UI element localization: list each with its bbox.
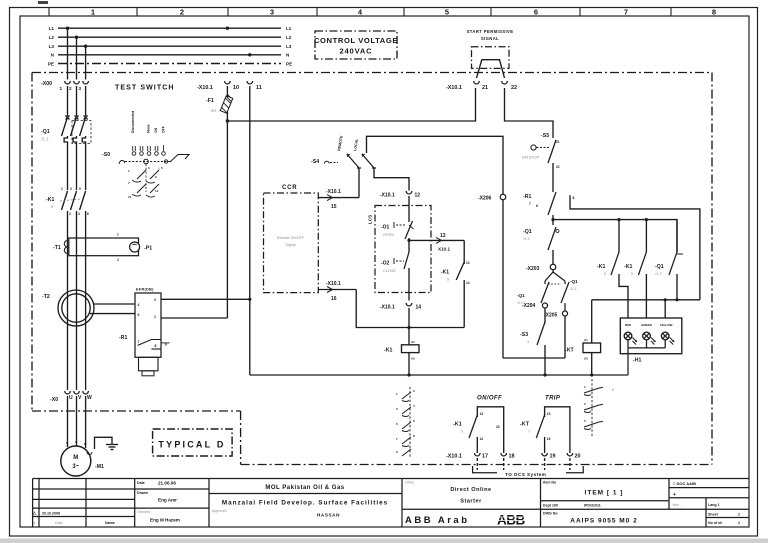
svg-text:3: 3	[270, 8, 274, 17]
svg-text:2: 2	[180, 8, 184, 17]
svg-text:TO DCS System: TO DCS System	[505, 472, 546, 477]
aux contact stack KT (right)	[584, 379, 614, 436]
svg-text:-K1: -K1	[46, 197, 54, 203]
selector S4	[311, 135, 376, 168]
svg-text:A2: A2	[411, 357, 415, 361]
bus PE	[58, 63, 281, 65]
svg-text:12: 12	[415, 193, 421, 199]
svg-text:CONTROL VOLTAGE: CONTROL VOLTAGE	[314, 36, 398, 45]
control voltage box	[314, 31, 398, 59]
svg-text:Approved: Approved	[212, 509, 227, 513]
wire 12 into LCS	[408, 196, 410, 222]
svg-text:OFF: OFF	[162, 126, 166, 133]
svg-text:Manzalai Field Develop. Surfac: Manzalai Field Develop. Surface Faciliti…	[222, 500, 388, 507]
svg-text:13: 13	[466, 261, 470, 265]
svg-text:-K1: -K1	[384, 348, 392, 354]
frame column numbers	[91, 8, 716, 17]
neutral rail	[250, 374, 628, 376]
contactor K1	[46, 187, 89, 216]
svg-text:7: 7	[529, 202, 531, 206]
svg-text:L2: L2	[49, 35, 55, 40]
svg-text:Move: Move	[147, 124, 151, 133]
svg-text:L1: L1	[286, 26, 292, 31]
wire L3 tap	[85, 46, 87, 79]
svg-text:8: 8	[712, 8, 716, 17]
wire rail to KT coil	[591, 300, 593, 343]
power column wires	[68, 28, 86, 448]
contact K1 holding	[441, 240, 470, 327]
svg-text:M: M	[73, 455, 78, 461]
svg-text:1: 1	[61, 187, 63, 191]
svg-text:-S3: -S3	[520, 332, 528, 338]
toroid CT T2	[42, 290, 135, 326]
wire K1 to T2	[67, 211, 69, 390]
emergency stop S5	[522, 133, 560, 169]
svg-text:21: 21	[556, 140, 560, 144]
svg-text:1: 1	[91, 8, 95, 17]
svg-text:22: 22	[556, 165, 560, 169]
lamp feed rail	[592, 299, 700, 301]
svg-text:-S0: -S0	[102, 152, 110, 158]
svg-text:6: 6	[87, 212, 89, 216]
svg-text:20: 20	[575, 454, 581, 460]
wire O2 to terminal 14	[408, 268, 410, 301]
svg-text:17: 17	[482, 454, 488, 460]
svg-text:3: 3	[584, 402, 586, 406]
svg-text:2: 2	[117, 258, 119, 262]
svg-text:(Title): (Title)	[405, 481, 414, 485]
svg-text:X10.1: X10.1	[438, 247, 450, 252]
svg-text:6: 6	[534, 8, 538, 17]
svg-text:-S4: -S4	[311, 159, 319, 165]
svg-text:-K1: -K1	[441, 270, 449, 276]
svg-text:-X00: -X00	[41, 81, 52, 87]
svg-text:L1: L1	[49, 26, 55, 31]
svg-text:LCS: LCS	[368, 215, 373, 224]
svg-text:11: 11	[256, 85, 262, 91]
svg-text:3: 3	[79, 86, 82, 91]
svg-text:13: 13	[480, 412, 484, 416]
wire X206 bottom to S3 branch	[503, 357, 545, 359]
svg-text:HASSAN: HASSAN	[317, 513, 340, 518]
pushbutton O2 CLOSE (NO)	[381, 252, 409, 273]
aux contact stack S4 (left)	[396, 387, 415, 457]
svg-text:5: 5	[51, 204, 54, 209]
wire S4 common up-right to X206	[367, 136, 504, 358]
lamp green	[643, 332, 656, 344]
CCR box	[264, 185, 319, 293]
wire L1 tap	[67, 28, 69, 79]
svg-text:A1: A1	[584, 338, 588, 342]
svg-text:GREEN: GREEN	[641, 323, 652, 327]
twin changeover Q1	[541, 270, 569, 311]
terminal X204	[543, 303, 548, 308]
svg-text:-T2: -T2	[42, 294, 50, 300]
svg-text:SIGNAL: SIGNAL	[481, 36, 499, 41]
svg-text:16: 16	[547, 437, 551, 441]
svg-text:Checked: Checked	[137, 510, 150, 514]
svg-text:-X10.1: -X10.1	[380, 305, 395, 311]
bus L2	[58, 36, 281, 38]
svg-text:A2: A2	[584, 357, 588, 361]
terminal X00	[41, 81, 88, 91]
svg-text:+: +	[673, 492, 676, 498]
svg-text:Drawn: Drawn	[137, 491, 148, 495]
svg-text:4A: 4A	[211, 108, 216, 113]
wire EFR pin1 to L drop	[161, 317, 227, 319]
ground symbol	[95, 437, 119, 449]
svg-text:Dept 100: Dept 100	[543, 504, 558, 508]
svg-text:≡ DOC AAIB: ≡ DOC AAIB	[673, 481, 696, 486]
terminal X10.1 21/22	[446, 81, 517, 91]
lamp box H1	[620, 318, 682, 375]
coil K1	[384, 340, 419, 375]
svg-text:L2: L2	[286, 35, 292, 40]
bus labels left	[48, 26, 55, 66]
contact S3	[520, 308, 545, 375]
svg-text:15: 15	[331, 204, 337, 210]
svg-text:3: 3	[70, 187, 72, 191]
title cell row	[402, 508, 541, 510]
svg-text:CLOSE: CLOSE	[383, 269, 396, 273]
svg-text:L3: L3	[286, 44, 292, 49]
svg-text:3: 3	[148, 166, 150, 170]
bus L3	[58, 45, 281, 47]
header plug symbols	[132, 145, 165, 155]
svg-text:-Q1: -Q1	[41, 129, 50, 135]
svg-text:TEST SWITCH: TEST SWITCH	[115, 85, 175, 92]
svg-text:3~: 3~	[72, 464, 79, 470]
svg-text:N: N	[286, 53, 290, 58]
svg-text:7: 7	[128, 181, 130, 185]
svg-text:u: u	[66, 441, 68, 445]
right cells rows	[669, 487, 749, 489]
svg-text:-S5: -S5	[541, 133, 549, 139]
svg-text:Sheet: Sheet	[708, 513, 719, 517]
svg-text:Eng M Hazem: Eng M Hazem	[150, 518, 180, 523]
wire X0 to M1	[67, 396, 69, 447]
contact Q1 aux	[522, 227, 559, 264]
svg-text:LOCAL: LOCAL	[353, 137, 359, 151]
svg-text:/1.3: /1.3	[40, 137, 49, 142]
wire Q1 to K1	[67, 146, 69, 190]
svg-text:3: 3	[154, 298, 156, 302]
junction dots on buses	[66, 27, 252, 57]
frame ticks	[49, 8, 671, 17]
svg-text:5: 5	[79, 187, 81, 191]
svg-text:14: 14	[480, 437, 484, 441]
svg-text:-O1: -O1	[381, 225, 390, 231]
terminal X10.1 13	[436, 233, 450, 252]
node EFR N	[248, 298, 251, 301]
svg-text:-Q1: -Q1	[523, 229, 532, 235]
svg-text:△: △	[32, 510, 37, 515]
svg-text:18: 18	[509, 454, 515, 460]
item cell	[543, 481, 638, 525]
svg-text:2: 2	[69, 86, 72, 91]
enclosure boundary (dash-dot)	[32, 73, 712, 465]
svg-text:ITEM [ 1 ]: ITEM [ 1 ]	[585, 490, 624, 497]
svg-text:1: 1	[60, 86, 63, 91]
svg-text:5: 5	[445, 8, 449, 17]
terminal X10.1 10/11	[197, 81, 262, 91]
svg-text:ON/OFF: ON/OFF	[477, 396, 502, 402]
permissive jumper	[477, 60, 505, 78]
svg-text:13: 13	[155, 189, 159, 193]
svg-text:-Q1: -Q1	[570, 279, 578, 284]
node F1 out	[226, 119, 229, 122]
svg-text:21: 21	[482, 85, 488, 91]
svg-text:7: 7	[624, 8, 628, 17]
svg-text:Remote ON/OFF: Remote ON/OFF	[277, 236, 305, 240]
svg-text:3: 3	[396, 407, 398, 411]
svg-text:1: 1	[584, 385, 586, 389]
svg-text:-M1: -M1	[95, 464, 104, 470]
svg-text:-KT: -KT	[565, 348, 574, 354]
svg-text:13: 13	[440, 233, 446, 239]
svg-text:20.10.2008: 20.10.2008	[42, 512, 60, 516]
fuse F1	[206, 94, 233, 113]
svg-text:RED: RED	[625, 323, 632, 327]
svg-text:-X10.1: -X10.1	[326, 281, 341, 287]
svg-text:8: 8	[413, 434, 415, 438]
svg-text:No of sh: No of sh	[708, 521, 722, 525]
svg-text:Date: Date	[137, 481, 145, 485]
svg-text:Eng Amr: Eng Amr	[158, 498, 177, 503]
svg-text:-X206: -X206	[478, 196, 492, 202]
svg-text:Item No: Item No	[543, 481, 557, 485]
branch contact K1 (red lamp)	[597, 220, 628, 318]
svg-text:4: 4	[78, 212, 80, 216]
wire S4 to terminal 15 riser	[358, 168, 360, 198]
svg-text:-X10.1: -X10.1	[446, 454, 462, 460]
svg-text:PE: PE	[286, 61, 292, 66]
svg-text:8: 8	[155, 344, 157, 348]
wire L2 tap	[76, 37, 78, 79]
svg-text:Starter: Starter	[460, 499, 482, 505]
lamp yellow	[661, 332, 674, 344]
svg-text:5: 5	[461, 430, 463, 434]
svg-text:OPEN: OPEN	[383, 233, 394, 237]
svg-text:START PERMISSIVE: START PERMISSIVE	[467, 29, 514, 34]
svg-text:10: 10	[233, 85, 239, 91]
svg-text:5: 5	[604, 272, 606, 276]
svg-text:MOL Pakistan Oil & Gas: MOL Pakistan Oil & Gas	[265, 485, 344, 491]
svg-text:DWG No: DWG No	[543, 512, 558, 516]
terminals X10.1 17-20	[446, 453, 581, 470]
MOL cell rows	[209, 493, 402, 495]
svg-text:a: a	[33, 521, 35, 525]
svg-text:TRIP: TRIP	[545, 396, 561, 402]
svg-text:5: 5	[396, 422, 398, 426]
terminal X205	[563, 311, 568, 316]
bus N	[58, 54, 281, 56]
terminal X206	[478, 194, 506, 201]
svg-text:4: 4	[413, 404, 415, 408]
thermal elements	[64, 136, 67, 146]
svg-text:AAIPS 9055 M0 2: AAIPS 9055 M0 2	[570, 518, 637, 525]
svg-text:2: 2	[413, 389, 415, 393]
title cell	[405, 481, 535, 528]
svg-text:7: 7	[396, 437, 398, 441]
svg-text:6: 6	[413, 419, 415, 423]
svg-text:-X10.1: -X10.1	[380, 193, 395, 199]
terminal X10.1 16	[318, 281, 356, 302]
svg-text:6: 6	[612, 388, 614, 392]
svg-text:-Q1: -Q1	[655, 264, 664, 270]
wire EFR pin3 to N drop	[161, 298, 250, 300]
LCS box	[368, 206, 432, 293]
svg-text:-X0: -X0	[50, 397, 58, 403]
svg-text:11: 11	[128, 195, 132, 199]
svg-text:22: 22	[511, 85, 517, 91]
main row	[119, 160, 125, 164]
svg-text:REMOTE: REMOTE	[337, 135, 344, 151]
svg-text:2: 2	[69, 212, 71, 216]
svg-text:-H1: -H1	[633, 358, 641, 364]
svg-text:-P1: -P1	[144, 246, 152, 252]
second row contacts	[132, 164, 159, 192]
terminal X0 U V W	[50, 391, 92, 403]
svg-text:Direct Online: Direct Online	[450, 487, 491, 493]
svg-text:Signal: Signal	[286, 243, 296, 247]
date cell	[137, 481, 180, 523]
svg-text:Date: Date	[55, 521, 63, 525]
svg-text:8: 8	[573, 196, 575, 200]
svg-text:5: 5	[161, 166, 163, 170]
svg-text:1: 1	[128, 169, 130, 173]
bus L1	[58, 27, 281, 29]
svg-text:14: 14	[416, 305, 422, 311]
svg-text:5: 5	[584, 419, 586, 423]
svg-text:Disconnected: Disconnected	[131, 111, 135, 133]
svg-text:16: 16	[331, 296, 337, 302]
right small cells	[672, 481, 740, 525]
svg-text:TYPICAL D: TYPICAL D	[158, 440, 225, 450]
ABB logo	[497, 513, 535, 528]
svg-text:14: 14	[466, 281, 470, 285]
terminal X10.1 14	[380, 303, 421, 311]
TRIP section	[520, 396, 570, 454]
svg-text:/1.3: /1.3	[654, 272, 662, 276]
nodes on neutral rail	[407, 373, 410, 376]
svg-text:4: 4	[138, 303, 140, 307]
wire 11 down (N)	[249, 86, 251, 375]
wire T2 to R1 box	[94, 303, 136, 305]
svg-text:IPD/31011: IPD/31011	[584, 504, 601, 508]
switch S0	[102, 145, 189, 199]
svg-text:-KT: -KT	[520, 422, 530, 428]
svg-text:Lang 1: Lang 1	[708, 503, 720, 507]
svg-text:v: v	[75, 440, 77, 444]
test switch S0 position labels (rotated)	[131, 111, 166, 133]
wire 14 to K1 coil	[408, 308, 410, 345]
svg-text:240VAC: 240VAC	[340, 47, 373, 56]
wire X205 down	[564, 316, 566, 358]
scan mark top left	[38, 1, 48, 4]
DCS brace	[473, 466, 584, 477]
svg-text:YELLOW: YELLOW	[660, 323, 673, 327]
svg-text:N: N	[51, 53, 55, 58]
branch contact K1 (green lamp)	[624, 220, 646, 318]
typical D box	[153, 429, 233, 456]
svg-text:-K1: -K1	[453, 422, 462, 428]
terminal X203	[526, 264, 556, 272]
svg-text:-R1: -R1	[119, 335, 127, 341]
svg-text:/1.3: /1.3	[522, 236, 530, 241]
svg-text:7: 7	[528, 430, 530, 434]
svg-text:2: 2	[738, 513, 740, 517]
wire S5 to R1	[552, 163, 554, 192]
ON/OFF section	[453, 396, 504, 454]
svg-text:-F1: -F1	[206, 98, 214, 104]
wire to yellow lamp	[664, 300, 666, 318]
svg-text:6: 6	[536, 204, 538, 208]
svg-text:-X204: -X204	[522, 303, 536, 309]
svg-text:-O2: -O2	[381, 261, 390, 267]
CT T1 with ammeter P1	[53, 233, 152, 263]
svg-text:15: 15	[547, 412, 551, 416]
bus labels right	[286, 26, 292, 66]
wire 10 down / fuse leads	[226, 86, 228, 97]
svg-text:1: 1	[117, 233, 119, 237]
svg-text:-K1: -K1	[597, 264, 605, 270]
svg-text:W: W	[87, 395, 92, 401]
wire R1 down / branch rail	[552, 215, 554, 225]
item cell rows	[541, 500, 670, 502]
svg-text:21.06.06: 21.06.06	[158, 481, 176, 486]
terminal X10.1 15	[318, 189, 359, 210]
svg-text:-T1: -T1	[53, 245, 61, 251]
scan shadow bottom	[0, 539, 768, 543]
wire S4 to terminal 12	[374, 168, 409, 191]
third row contacts	[132, 184, 159, 197]
svg-text:-K1: -K1	[624, 264, 632, 270]
svg-text:-X10.1: -X10.1	[446, 85, 462, 91]
svg-text:Year ....: Year ....	[672, 503, 684, 507]
breaker Q1	[40, 116, 91, 147]
motor M1	[61, 440, 104, 476]
svg-text:ON: ON	[154, 127, 158, 133]
wire R1 pin8 branch to right	[570, 195, 700, 299]
svg-text:-X10.1: -X10.1	[197, 85, 213, 91]
svg-text:5: 5	[631, 272, 633, 276]
svg-text:w: w	[83, 442, 87, 446]
svg-text:Name: Name	[105, 521, 115, 525]
contact R1	[523, 192, 575, 215]
svg-text:2: 2	[738, 521, 740, 525]
svg-text:L3: L3	[49, 44, 55, 49]
wire L rail to term 21	[227, 88, 475, 121]
svg-text:U: U	[69, 395, 73, 401]
svg-text:-X203: -X203	[526, 266, 540, 272]
title block grid	[33, 479, 749, 527]
start permissive signal box	[467, 29, 514, 78]
lamp common	[628, 340, 665, 375]
coil KT	[565, 338, 601, 375]
svg-text:-X10.1: -X10.1	[326, 189, 341, 195]
svg-text:9: 9	[155, 175, 157, 179]
node A and 13 line	[408, 238, 410, 252]
lamp red	[624, 332, 637, 344]
svg-text:23: 23	[496, 425, 500, 429]
svg-text:A1: A1	[411, 340, 415, 344]
terminal X10.1 12	[380, 191, 420, 199]
svg-text:ABB Arab: ABB Arab	[405, 515, 470, 526]
svg-text:4: 4	[358, 8, 363, 17]
revision rows	[33, 488, 209, 490]
branch contact Q1 (yellow lamp)	[654, 220, 683, 300]
